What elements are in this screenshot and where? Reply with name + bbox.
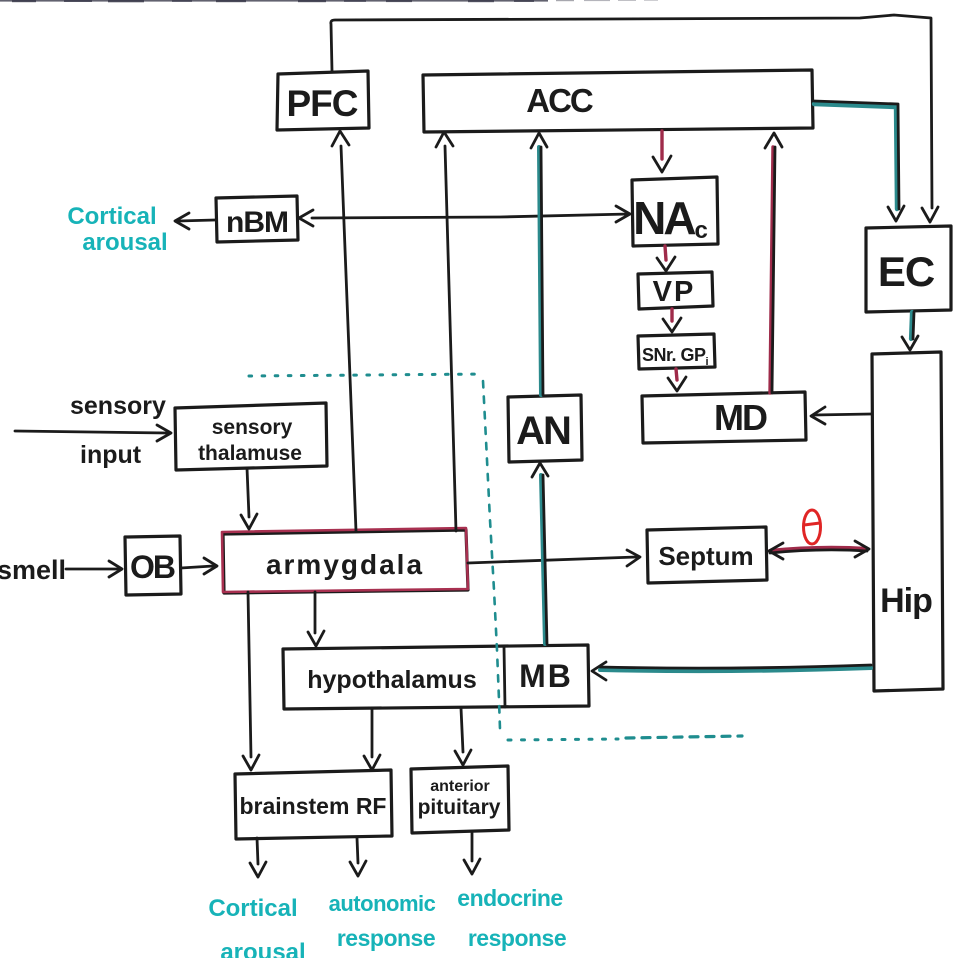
svg-text:brainstem RF: brainstem RF xyxy=(240,793,387,819)
arrowhead into brainstem RF top left xyxy=(243,755,259,770)
box SNr GPi xyxy=(638,334,715,369)
dotted teal line top horizontal xyxy=(249,374,484,376)
svg-text:MB: MB xyxy=(519,658,573,694)
arrowhead teal into ACC bottom xyxy=(531,133,547,148)
wire nBM to cortical arousal xyxy=(178,220,215,221)
wire black companion MD to ACC xyxy=(772,147,775,393)
wire black companion EC to Hip xyxy=(913,312,914,339)
wire amygdala to brainstem RF xyxy=(248,592,251,757)
svg-text:armygdala: armygdala xyxy=(266,549,424,580)
arrowhead into ACC bottom left xyxy=(436,132,453,147)
arrowhead teal into Hip top xyxy=(902,336,918,350)
svg-text:pituitary: pituitary xyxy=(418,796,501,819)
wire top loop PFC to EC xyxy=(331,15,932,208)
arrowhead into anterior pituitary top xyxy=(455,750,471,765)
wire teal MB to AN xyxy=(541,475,545,644)
wire black companion AN to ACC xyxy=(541,147,543,395)
arrowhead into hypothalamus top xyxy=(308,631,324,646)
arrowhead into sensory thalamus xyxy=(157,425,171,441)
arrowhead red into NAc top xyxy=(653,156,671,172)
svg-text:Septum: Septum xyxy=(658,541,753,571)
svg-text:smell: smell xyxy=(0,555,66,585)
box Septum xyxy=(647,527,767,583)
wire Hip to MD xyxy=(814,414,871,415)
svg-text:arousal: arousal xyxy=(82,229,167,256)
wire anterior pituitary output xyxy=(471,833,474,861)
wire amygdala to Septum xyxy=(468,557,636,563)
box VP xyxy=(638,272,713,309)
box brainstem RF xyxy=(235,770,392,839)
wire brainstem RF output left xyxy=(257,838,258,864)
svg-text:Cortical: Cortical xyxy=(67,203,156,230)
arrowhead red into SNr top xyxy=(663,318,681,332)
svg-text:hypothalamus: hypothalamus xyxy=(307,666,476,694)
wire red NAc to VP xyxy=(665,246,666,260)
box anterior pituitary xyxy=(411,766,509,833)
svg-text:sensory: sensory xyxy=(212,416,293,439)
arrowhead red into MD top xyxy=(668,377,686,391)
top edge smudge xyxy=(0,0,658,2)
wire hypothalamus to brainstem RF xyxy=(371,708,374,757)
wire teal Hip to MB xyxy=(600,668,871,671)
box EC xyxy=(866,226,951,312)
svg-text:OB: OB xyxy=(130,549,175,585)
wire amygdala to ACC xyxy=(445,146,456,531)
svg-text:response: response xyxy=(337,925,435,951)
box amygdala red overlay xyxy=(222,528,468,592)
svg-text:arousal: arousal xyxy=(220,939,305,958)
arrowhead red into ACC bottom right xyxy=(765,133,782,148)
wire red ACC to NAc xyxy=(660,131,663,159)
arrowhead brainstem RF output right xyxy=(350,861,366,876)
arrowhead into amygdala top xyxy=(241,514,257,529)
box hypothalamus xyxy=(283,645,589,709)
box AN xyxy=(508,395,582,462)
arrowhead theta into Septum xyxy=(769,543,783,559)
svg-text:Cortical: Cortical xyxy=(208,895,297,922)
arrowhead into MB right xyxy=(592,662,606,680)
svg-text:PFC: PFC xyxy=(287,83,358,124)
wire teal ACC to EC xyxy=(814,104,897,209)
arrowhead into brainstem RF top right xyxy=(364,755,380,770)
svg-text:SNr. GPi: SNr. GPi xyxy=(642,345,709,368)
dotted teal line bottom horizontal xyxy=(508,739,618,740)
arrowhead top loop into EC xyxy=(922,207,938,222)
box NAc xyxy=(632,177,718,246)
svg-text:anterior: anterior xyxy=(430,778,490,795)
divider hypothalamus / MB xyxy=(504,647,505,707)
wire OB to amygdala xyxy=(181,566,213,568)
arrowhead teal into AN bottom xyxy=(532,463,548,477)
box sensory thalamus xyxy=(175,403,327,470)
dotted teal line bottom horizontal dashes xyxy=(626,736,742,738)
arrowhead cortical arousal xyxy=(175,213,189,229)
svg-text:VP: VP xyxy=(653,276,696,308)
wire sensory input arrow xyxy=(15,431,168,433)
arrowhead into Septum left xyxy=(627,550,640,566)
box ACC xyxy=(423,70,813,132)
box PFC xyxy=(277,71,369,130)
arrowhead theta into Hip xyxy=(855,541,869,557)
svg-text:response: response xyxy=(468,925,566,951)
arrowhead anterior pituitary output xyxy=(464,859,480,874)
svg-text:AN: AN xyxy=(516,409,570,453)
box Hip xyxy=(872,352,943,691)
svg-text:sensory: sensory xyxy=(70,392,166,420)
svg-text:endocrine: endocrine xyxy=(457,885,562,911)
wire smell to OB xyxy=(66,568,119,571)
svg-text:EC: EC xyxy=(878,248,935,295)
svg-text:input: input xyxy=(80,441,142,469)
wire amygdala to hypothalamus xyxy=(314,592,317,633)
arrowhead into NAc left xyxy=(616,206,630,222)
label theta red xyxy=(804,510,821,544)
wire amygdala to PFC xyxy=(341,146,356,531)
arrowhead into PFC bottom xyxy=(332,131,349,146)
wire black companion ACC to EC elbow xyxy=(814,101,899,209)
wire black companion Hip to MB xyxy=(600,665,871,668)
box MD xyxy=(642,392,806,443)
wire red Septum to Hip theta link xyxy=(770,548,867,551)
svg-text:Hip: Hip xyxy=(880,582,932,620)
svg-text:thalamuse: thalamuse xyxy=(198,442,302,465)
svg-text:MD: MD xyxy=(714,397,767,438)
arrowhead into MD right xyxy=(811,407,825,424)
svg-text:ACC: ACC xyxy=(526,82,593,119)
arrowhead teal into EC top xyxy=(888,206,904,221)
box amygdala black xyxy=(223,530,468,593)
svg-text:nBM: nBM xyxy=(226,206,288,239)
wire hypothalamus to anterior pituitary xyxy=(461,708,463,752)
svg-text:autonomic: autonomic xyxy=(329,891,436,916)
box nBM xyxy=(216,196,298,242)
wire red MD to ACC xyxy=(770,147,773,393)
box OB xyxy=(125,536,181,595)
wire teal EC to Hip xyxy=(911,312,912,339)
wire teal AN to ACC xyxy=(539,147,541,395)
wire red VP to SNr xyxy=(670,309,673,321)
arrowhead brainstem RF output left xyxy=(250,862,266,877)
arrowhead into OB left xyxy=(109,561,122,577)
arrowhead into amygdala left xyxy=(204,558,217,574)
wire black companion MB to AN xyxy=(543,475,547,644)
wire sensory thalamus to amygdala xyxy=(247,468,249,517)
arrowhead red into VP top xyxy=(657,257,675,271)
dotted teal line vertical xyxy=(483,381,500,729)
wire red SNr to MD xyxy=(676,369,677,380)
wire nBM to NAc double arrow xyxy=(312,214,629,218)
arrowhead into nBM right xyxy=(299,210,313,226)
wire black companion theta link xyxy=(770,550,867,553)
wire brainstem RF output right xyxy=(357,838,358,863)
